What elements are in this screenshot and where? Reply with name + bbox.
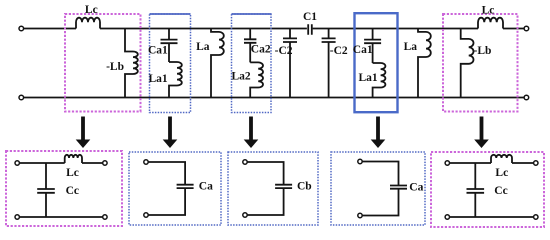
svg-text:-Lb: -Lb	[474, 45, 492, 57]
svg-text:Lc: Lc	[66, 167, 79, 179]
svg-text:Ca1: Ca1	[353, 44, 373, 56]
inductor La2	[250, 62, 263, 97]
eq3 terminal bottom	[243, 213, 247, 217]
svg-text:La: La	[196, 41, 210, 53]
port terminal bottom-left	[19, 95, 24, 100]
svg-text:C1: C1	[303, 11, 317, 23]
svg-text:Ca1: Ca1	[148, 44, 168, 56]
svg-text:Ca: Ca	[409, 182, 423, 194]
inductor -Lb right shunt	[461, 29, 474, 98]
arrow 4 down	[371, 117, 386, 149]
capacitor Cc eq5	[467, 163, 485, 217]
box eq4 blue dotted	[331, 152, 425, 225]
eq5 terminal bottom-left	[445, 215, 449, 219]
box unit1 magenta dashed	[65, 14, 141, 112]
arrow 1 down	[76, 117, 91, 149]
eq4 circuit Ca	[362, 162, 407, 216]
capacitor Cc eq1	[37, 163, 55, 217]
box eq2 blue dotted	[129, 152, 221, 225]
svg-text:Lc: Lc	[85, 4, 98, 16]
svg-text:-C2: -C2	[275, 45, 293, 57]
svg-text:Lc: Lc	[482, 5, 495, 17]
inductor Lc right series	[478, 18, 503, 29]
port terminal top-right	[524, 26, 529, 31]
box eq1 magenta dashed	[6, 151, 122, 226]
box eq3 blue dotted	[228, 152, 318, 225]
eq2 terminal top	[144, 160, 148, 164]
capacitor C1 series	[308, 24, 312, 34]
inductor -Lb left shunt	[125, 29, 138, 98]
eq1 terminal bottom-right	[103, 215, 107, 219]
capacitor Ca2	[244, 29, 256, 63]
svg-text:Lc: Lc	[495, 167, 508, 179]
svg-text:Cc: Cc	[66, 185, 79, 197]
svg-text:Cb: Cb	[297, 181, 312, 193]
wire bottom rail	[24, 97, 525, 99]
svg-text:Ca: Ca	[199, 181, 213, 193]
arrow 2 down	[163, 117, 178, 149]
wire top rail	[24, 28, 525, 30]
eq5 terminal top-left	[445, 161, 449, 165]
eq1 terminal bottom-left	[15, 215, 19, 219]
box resonator2 blue dotted	[232, 14, 272, 113]
svg-text:-C2: -C2	[330, 45, 348, 57]
eq1 terminal top-right	[103, 161, 107, 165]
box resonator1 blue dotted	[150, 14, 191, 113]
inductor Lc eq5	[491, 155, 512, 163]
eq2 terminal bottom	[144, 213, 148, 217]
capacitor -C2 left	[283, 29, 297, 98]
box resonator2 top edge	[232, 13, 272, 15]
inductor La shunt 2	[418, 29, 431, 98]
svg-text:Ca2: Ca2	[251, 44, 271, 56]
eq3 terminal top	[243, 160, 247, 164]
inductor La1 right	[373, 63, 386, 98]
port terminal top-left	[19, 26, 24, 31]
eq5 terminal bottom-right	[534, 215, 538, 219]
inductor Lc left series	[76, 18, 100, 29]
box resonator1 top edge	[150, 13, 191, 15]
svg-text:La1: La1	[359, 72, 378, 84]
svg-text:Cc: Cc	[494, 185, 507, 197]
inductor Lc eq1	[65, 155, 82, 163]
arrow 5 down	[474, 117, 489, 149]
box resonator3 blue solid	[355, 13, 398, 112]
capacitor Ca1 right	[364, 29, 381, 64]
box eq5 magenta dashed	[431, 152, 544, 227]
svg-text:-Lb: -Lb	[106, 61, 124, 73]
eq2 circuit Ca	[148, 162, 193, 215]
inductor La1 left	[169, 62, 182, 98]
inductor La shunt 1	[211, 29, 224, 98]
box unit2 magenta dashed	[443, 14, 518, 112]
eq5 wires	[450, 163, 534, 217]
arrow 3 down	[244, 117, 259, 149]
svg-text:La: La	[404, 41, 418, 53]
eq4 terminal bottom	[358, 213, 362, 217]
eq1 wires	[20, 163, 103, 217]
capacitor -C2 right	[322, 29, 336, 98]
capacitor Ca1 left	[161, 29, 178, 63]
eq4 terminal top	[358, 159, 362, 163]
port terminal bottom-right	[524, 95, 529, 100]
eq3 circuit Cb	[247, 162, 292, 215]
svg-text:La1: La1	[149, 73, 168, 85]
eq1 terminal top-left	[15, 161, 19, 165]
eq5 terminal top-right	[534, 161, 538, 165]
svg-text:La2: La2	[232, 71, 251, 83]
